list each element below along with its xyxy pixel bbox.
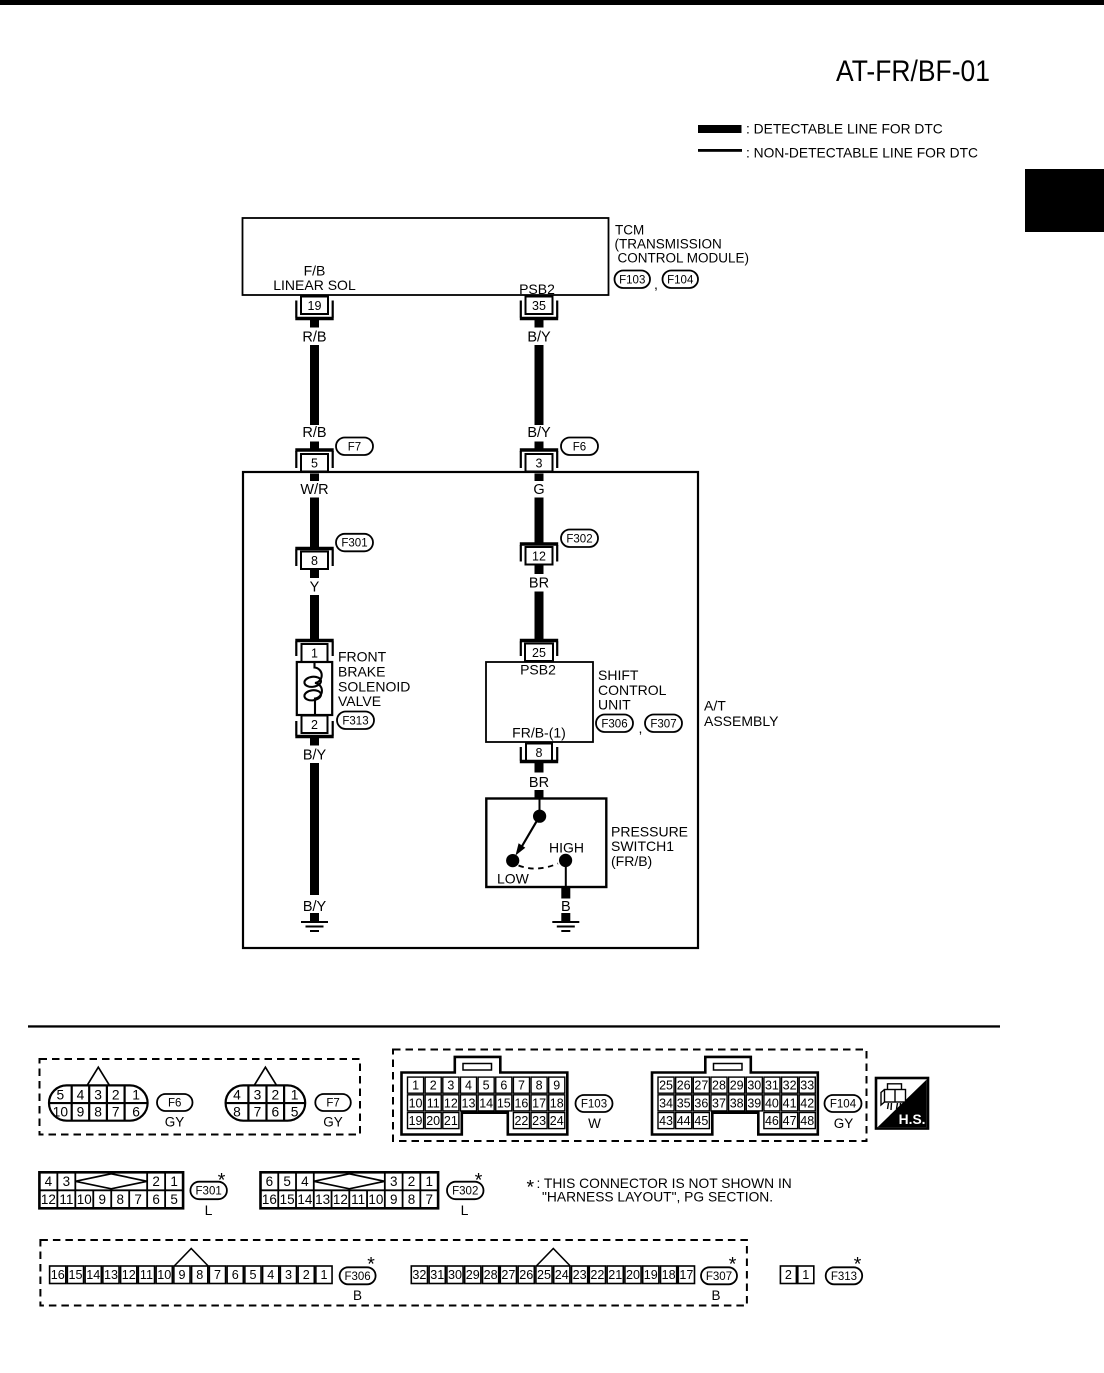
wire G (detectable, thick) [535,498,544,543]
svg-text:Y: Y [310,579,320,595]
svg-text:VALVE: VALVE [338,693,381,709]
svg-text:G: G [533,482,544,498]
connector F6 label [157,1094,193,1130]
svg-text:8: 8 [311,554,318,568]
svg-text:7: 7 [518,1079,525,1093]
svg-text:PSB2: PSB2 [520,662,556,678]
svg-text:11: 11 [59,1192,73,1207]
LOW contact dot [506,854,519,867]
svg-text:(TRANSMISSION: (TRANSMISSION [615,237,722,252]
wire stub below terminal 8 [535,762,544,773]
svg-text:30: 30 [448,1268,462,1282]
terminal 35 (TCM) [520,297,558,319]
svg-text:B/Y: B/Y [303,899,327,915]
svg-text:BRAKE: BRAKE [338,664,385,680]
svg-text:B/Y: B/Y [303,748,327,764]
svg-text:HIGH: HIGH [549,839,584,855]
svg-text:FRONT: FRONT [338,649,387,665]
svg-text:1: 1 [170,1174,178,1189]
wire stub above ground [561,913,570,922]
connector F302 label [447,1170,484,1219]
svg-text:L: L [205,1202,213,1218]
terminal 12 (F302) [520,544,558,565]
svg-text:28: 28 [712,1079,726,1093]
svg-text:3: 3 [285,1268,292,1282]
TCM box [243,218,609,295]
svg-text:11: 11 [427,1096,440,1110]
svg-text:12: 12 [444,1096,458,1110]
svg-text:8: 8 [116,1192,124,1207]
svg-text:26: 26 [677,1079,691,1093]
svg-text:37: 37 [712,1096,726,1110]
svg-text:1: 1 [311,647,318,661]
svg-text:3: 3 [63,1174,71,1189]
svg-text:46: 46 [765,1114,779,1128]
wire stub above ground [310,913,319,922]
connector F313 label [337,712,374,730]
connector F307 label [645,715,682,733]
svg-text:10: 10 [157,1268,171,1282]
svg-text:R/B: R/B [302,425,326,441]
wire stub below terminal 19 [310,319,319,328]
wire stub below terminal 3 [535,474,544,482]
svg-text:22: 22 [514,1114,528,1128]
connector F104 label [663,271,699,289]
svg-text:6: 6 [500,1079,507,1093]
svg-text:A/T: A/T [704,698,726,714]
svg-text:SOLENOID: SOLENOID [338,678,410,694]
svg-text:44: 44 [677,1114,691,1128]
svg-text:16: 16 [262,1192,277,1207]
connector F7 label [336,438,373,456]
svg-text:12: 12 [532,549,546,563]
svg-text:F301: F301 [341,538,367,550]
svg-text:F104: F104 [667,274,694,286]
svg-text:B: B [353,1288,362,1303]
connector F104 label [825,1095,862,1131]
connector F6 label [561,438,598,456]
terminal 8 (shift control unit) [520,744,558,762]
svg-text:38: 38 [730,1096,744,1110]
solenoid coil [304,662,322,715]
svg-text:*: * [527,1177,535,1199]
svg-text:,: , [654,276,658,292]
PRESSURE SWITCH1 label [611,823,688,869]
terminal 25 (shift control unit) [520,641,558,662]
svg-text:: NON-DETECTABLE LINE FOR DTC: : NON-DETECTABLE LINE FOR DTC [746,146,978,161]
svg-text:8: 8 [94,1105,102,1120]
svg-text:32: 32 [412,1268,426,1282]
svg-text:24: 24 [555,1268,569,1282]
switch arm with arrow [516,816,540,855]
svg-text:47: 47 [783,1114,797,1128]
svg-text:26: 26 [519,1268,533,1282]
terminal 8 (F301) [295,549,333,570]
FRONT BRAKE SOLENOID VALVE label [338,649,410,709]
wire stub above pressure switch [535,790,544,799]
svg-text:19: 19 [644,1268,658,1282]
dashed switch throw arc [519,864,559,869]
svg-text:9: 9 [77,1105,85,1120]
svg-text:2: 2 [430,1079,437,1093]
separator rule [28,1025,1000,1027]
svg-text:13: 13 [462,1096,476,1110]
svg-text:8: 8 [536,1079,543,1093]
svg-text:8: 8 [196,1268,203,1282]
dashed group box (F6, F7) [40,1059,361,1135]
svg-text:: DETECTABLE LINE FOR DTC: : DETECTABLE LINE FOR DTC [746,122,943,137]
svg-text:6: 6 [266,1174,274,1189]
svg-text:F313: F313 [342,715,368,727]
svg-text:11: 11 [140,1268,153,1282]
svg-text:2: 2 [152,1174,160,1189]
svg-text:(FR/B): (FR/B) [611,853,652,869]
connector F103 label [615,271,651,289]
svg-text:6: 6 [232,1268,239,1282]
right edge section tab [1025,169,1104,232]
svg-text:10: 10 [409,1096,423,1110]
connector F302 face view [261,1172,439,1208]
svg-text:2: 2 [408,1174,416,1189]
svg-text:48: 48 [800,1114,814,1128]
wire stub below terminal 12 [535,565,544,575]
svg-text:25: 25 [659,1079,673,1093]
connector F306 label [340,1254,376,1304]
svg-text:1: 1 [320,1268,327,1282]
svg-text:20: 20 [426,1114,440,1128]
svg-text:3: 3 [536,456,543,470]
svg-text:BR: BR [529,575,549,591]
connector F104 face view [652,1057,818,1135]
svg-text:SHIFT: SHIFT [598,667,639,683]
connector F301 label [336,534,373,552]
terminal 5 (A/T assembly) [295,450,333,472]
svg-text:15: 15 [68,1268,82,1282]
connector F7 face view [226,1067,306,1121]
connector F307 label [701,1254,737,1304]
svg-text:5: 5 [249,1268,256,1282]
svg-text:41: 41 [783,1096,797,1110]
svg-text:4: 4 [301,1174,309,1189]
wire stub above terminal 3 [535,442,544,451]
svg-text:30: 30 [747,1079,761,1093]
svg-text:12: 12 [122,1268,136,1282]
wire stub below terminal 8 [310,569,319,578]
svg-text:21: 21 [444,1114,458,1128]
svg-text:4: 4 [77,1087,85,1102]
svg-text:32: 32 [783,1079,797,1093]
wire stub below terminal 2 [310,737,319,746]
svg-text:TCM: TCM [615,223,644,238]
svg-text:3: 3 [94,1087,102,1102]
svg-text:CONTROL MODULE): CONTROL MODULE) [618,251,750,266]
connector F306 label [596,715,633,733]
wire B/Y (detectable, thick) [310,763,319,895]
svg-text:5: 5 [311,456,318,470]
connector F6 face view [49,1067,148,1121]
connector F313 label [826,1254,863,1285]
svg-text:LINEAR SOL: LINEAR SOL [273,277,356,293]
svg-text:5: 5 [291,1105,299,1120]
switch common node wire [539,799,541,817]
svg-text:17: 17 [679,1268,693,1282]
terminal 1 (front brake solenoid valve) [295,641,333,663]
wire R/B (detectable, thick) [310,345,319,425]
wire stub above terminal 5 [310,442,319,451]
svg-text:B/Y: B/Y [527,425,551,441]
svg-text:H.S.: H.S. [899,1112,926,1127]
H.S. emblem [876,1078,928,1129]
svg-text:1: 1 [412,1079,419,1093]
svg-text:B: B [711,1288,720,1303]
svg-text:12: 12 [333,1192,348,1207]
ground (right) [552,922,579,931]
asterisk note [527,1176,792,1205]
terminal 3 (A/T assembly) [520,450,558,472]
terminal 2 (front brake solenoid valve) [295,716,333,737]
svg-text:34: 34 [659,1096,673,1110]
svg-text:9: 9 [99,1192,107,1207]
wire stub below pressure switch [561,887,570,899]
wire stub below terminal 35 [535,319,544,328]
svg-text:39: 39 [747,1096,761,1110]
svg-text:7: 7 [254,1105,262,1120]
svg-text:31: 31 [430,1268,444,1282]
pressure switch1 box [486,799,606,888]
svg-text:F7: F7 [348,441,361,453]
SHIFT CONTROL UNIT label [598,667,667,713]
svg-text:15: 15 [280,1192,295,1207]
svg-text:4: 4 [233,1087,241,1102]
svg-text:B: B [561,899,571,915]
legend detectable line sample [698,125,742,133]
svg-text:42: 42 [800,1096,814,1110]
connector F306 face view [50,1249,332,1284]
connector F313 face view [780,1266,813,1284]
svg-text:W: W [588,1116,601,1131]
svg-text:33: 33 [800,1079,814,1093]
svg-text:B/Y: B/Y [527,329,551,345]
svg-text:31: 31 [765,1079,779,1093]
svg-text:1: 1 [291,1087,299,1102]
svg-text:F302: F302 [566,533,592,545]
svg-text:13: 13 [104,1268,118,1282]
svg-text:GY: GY [834,1116,854,1131]
dashed group box (F306, F307) [40,1240,747,1306]
wire HIGH contact to box edge [565,860,567,887]
svg-text:35: 35 [677,1096,691,1110]
svg-text:F103: F103 [619,274,645,286]
svg-text:19: 19 [308,299,322,313]
svg-text:L: L [461,1202,469,1218]
top page border bar [0,0,1104,5]
wire stub below terminal 5 [310,474,319,482]
svg-text:27: 27 [694,1079,708,1093]
svg-text:3: 3 [447,1079,454,1093]
shift control unit box [486,662,593,742]
svg-text:4: 4 [45,1174,53,1189]
svg-text:UNIT: UNIT [598,697,631,713]
svg-text:LOW: LOW [497,871,530,887]
wire Y (detectable, thick) [310,595,319,640]
svg-text:24: 24 [550,1114,564,1128]
svg-text:9: 9 [553,1079,560,1093]
svg-text:F104: F104 [830,1099,857,1111]
svg-text:*: * [475,1170,483,1192]
svg-text:F307: F307 [650,718,676,730]
svg-text:2: 2 [271,1087,279,1102]
svg-text:23: 23 [573,1268,587,1282]
switch common contact dot [533,810,546,823]
svg-text:27: 27 [501,1268,515,1282]
HIGH contact dot [559,854,572,867]
svg-text:16: 16 [51,1268,65,1282]
svg-text:1: 1 [132,1087,140,1102]
svg-text:F6: F6 [168,1098,181,1110]
svg-text:FR/B-(1): FR/B-(1) [512,725,566,741]
wire BR (detectable, thick) [535,592,544,641]
svg-text:SWITCH1: SWITCH1 [611,838,674,854]
svg-text:29: 29 [730,1079,744,1093]
svg-text:18: 18 [550,1096,564,1110]
connector F103 face view [402,1057,568,1135]
svg-text:8: 8 [536,746,543,760]
wire W/R (detectable, thick) [310,498,319,548]
svg-text:F7: F7 [326,1098,339,1110]
terminal 19 (TCM) [295,297,333,319]
connector F302 label [561,530,598,548]
svg-text:2: 2 [785,1268,792,1282]
svg-text:10: 10 [77,1192,92,1207]
svg-text:*: * [854,1254,862,1276]
svg-text:14: 14 [297,1192,313,1207]
svg-text:10: 10 [368,1192,383,1207]
svg-text:29: 29 [466,1268,480,1282]
svg-text:40: 40 [765,1096,779,1110]
svg-text:R/B: R/B [302,329,326,345]
legend non-detectable line sample [698,149,742,152]
svg-text:23: 23 [532,1114,546,1128]
svg-text:4: 4 [465,1079,472,1093]
svg-text:16: 16 [514,1096,528,1110]
svg-text:22: 22 [590,1268,604,1282]
svg-text:*: * [729,1254,737,1276]
dashed group box (F103, F104) [393,1050,867,1142]
svg-text:14: 14 [86,1268,100,1282]
svg-text:6: 6 [132,1105,140,1120]
svg-text:9: 9 [390,1192,398,1207]
svg-text:25: 25 [532,646,546,660]
svg-text:7: 7 [214,1268,221,1282]
svg-text:8: 8 [408,1192,416,1207]
svg-text:7: 7 [425,1192,433,1207]
svg-text:ASSEMBLY: ASSEMBLY [704,713,779,729]
svg-text:11: 11 [351,1192,365,1207]
wire B/Y (detectable, thick) [535,345,544,425]
svg-text:5: 5 [283,1174,291,1189]
svg-text:5: 5 [483,1079,490,1093]
connector F301 face view [39,1172,183,1208]
svg-text:1: 1 [425,1174,433,1189]
svg-text:F306: F306 [601,718,627,730]
svg-text:9: 9 [178,1268,185,1282]
svg-text:GY: GY [323,1115,343,1130]
svg-text:5: 5 [170,1192,178,1207]
svg-text:F6: F6 [573,441,586,453]
svg-text:"HARNESS LAYOUT", PG SECTION.: "HARNESS LAYOUT", PG SECTION. [542,1190,773,1205]
connector F307 face view [411,1249,694,1284]
svg-text:25: 25 [537,1268,551,1282]
svg-text:10: 10 [53,1105,69,1120]
svg-text:8: 8 [233,1105,241,1120]
svg-text:35: 35 [532,299,546,313]
svg-text:45: 45 [694,1114,708,1128]
svg-text:28: 28 [484,1268,498,1282]
svg-text:2: 2 [112,1087,120,1102]
svg-text:PRESSURE: PRESSURE [611,823,688,839]
connector F103 label [576,1095,613,1131]
svg-text:14: 14 [479,1096,493,1110]
svg-text:6: 6 [152,1192,160,1207]
front brake solenoid valve body [297,662,332,715]
svg-text:19: 19 [409,1114,423,1128]
svg-text:5: 5 [57,1087,65,1102]
svg-text:43: 43 [659,1114,673,1128]
svg-text:17: 17 [532,1096,546,1110]
svg-text:*: * [367,1254,375,1276]
svg-text:21: 21 [608,1268,622,1282]
svg-text:20: 20 [626,1268,640,1282]
svg-text:,: , [639,720,643,736]
svg-text:*: * [218,1170,226,1192]
svg-text:BR: BR [529,775,549,791]
svg-text:13: 13 [315,1192,330,1207]
svg-text:7: 7 [134,1192,142,1207]
svg-text:18: 18 [662,1268,676,1282]
connector F301 label [190,1170,227,1219]
svg-text:12: 12 [41,1192,56,1207]
svg-text:2: 2 [303,1268,310,1282]
svg-text:2: 2 [311,718,318,732]
A/T ASSEMBLY box [243,472,698,948]
svg-text:15: 15 [497,1096,511,1110]
svg-text:4: 4 [267,1268,274,1282]
svg-text:AT-FR/BF-01: AT-FR/BF-01 [836,55,990,88]
svg-text:W/R: W/R [300,482,328,498]
svg-text:36: 36 [694,1096,708,1110]
ground (left) [301,922,328,931]
svg-text:3: 3 [254,1087,262,1102]
svg-text:7: 7 [112,1105,120,1120]
connector F7 label [315,1094,351,1130]
svg-text:3: 3 [390,1174,398,1189]
svg-text:6: 6 [271,1105,279,1120]
svg-text:F103: F103 [581,1099,607,1111]
svg-text:1: 1 [802,1268,809,1282]
svg-text:GY: GY [165,1115,185,1130]
svg-text:PSB2: PSB2 [519,281,555,297]
